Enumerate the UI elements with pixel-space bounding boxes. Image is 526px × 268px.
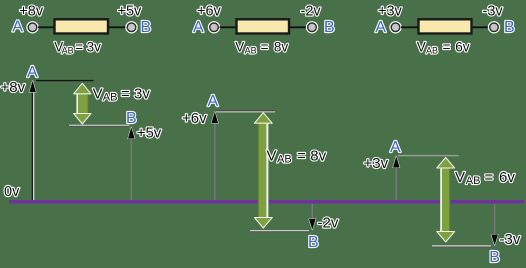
wire resistor R1 to B — [108, 26, 126, 28]
A level line (circuit 2) — [216, 111, 275, 112]
wire resistor R3 to B — [472, 26, 490, 28]
svg-text:AB: AB — [245, 46, 257, 56]
svg-text:=: = — [121, 86, 130, 103]
svg-text:AB: AB — [426, 46, 438, 56]
svg-text:=: = — [297, 148, 306, 165]
svg-text:B: B — [504, 19, 515, 36]
resistor R3 — [419, 19, 472, 33]
svg-text:6v: 6v — [455, 39, 470, 54]
svg-text:+3v: +3v — [364, 155, 389, 172]
value label VAB = 8v (circuit 2) — [235, 39, 288, 55]
vertical 0v axis with +8v arrow — [29, 81, 36, 200]
-2v measure line with down arrow (circuit 2) — [309, 204, 316, 230]
resistor R2 — [237, 19, 290, 33]
svg-text:V: V — [267, 148, 277, 165]
svg-text:+5v: +5v — [118, 4, 143, 20]
value label VAB = 6v (level, circuit 3) — [455, 169, 515, 187]
svg-text:V: V — [93, 86, 103, 103]
svg-text:6v: 6v — [499, 169, 515, 186]
svg-text:+6v: +6v — [197, 4, 222, 20]
svg-text:AB: AB — [103, 92, 118, 104]
svg-text:-3v: -3v — [483, 4, 504, 20]
+6v measure line with up arrow (circuit 2) — [211, 112, 218, 200]
terminal A (circuit 3) — [390, 22, 401, 33]
B level line (circuit 2) — [250, 231, 309, 232]
svg-text:A: A — [12, 19, 23, 36]
svg-text:+8v: +8v — [19, 4, 44, 20]
svg-text:0v: 0v — [4, 184, 20, 200]
value label VAB = 3v (level, circuit 1) — [93, 86, 151, 104]
terminal B (circuit 1) — [126, 22, 137, 33]
svg-text:AB: AB — [62, 46, 74, 56]
svg-text:B: B — [126, 110, 137, 127]
terminal A (circuit 1) — [27, 22, 38, 33]
terminal B (circuit 3) — [489, 22, 500, 33]
B level line (circuit 3) — [432, 246, 491, 247]
green arrow VAB (circuit 3) — [437, 158, 455, 243]
svg-text:A: A — [208, 93, 219, 110]
svg-text:V: V — [455, 169, 465, 186]
svg-text:+8v: +8v — [1, 79, 26, 96]
+5v measure line with up arrow (circuit 1) — [128, 127, 135, 200]
svg-text:3v: 3v — [134, 86, 150, 103]
wire resistor R2 to B — [289, 26, 307, 28]
svg-text:B: B — [324, 19, 335, 36]
svg-text:8v: 8v — [310, 148, 326, 165]
svg-text:3v: 3v — [87, 39, 102, 54]
green arrow VAB (circuit 2) — [254, 113, 272, 228]
svg-text:A: A — [390, 139, 401, 156]
green arrow VAB (circuit 1) — [74, 83, 91, 124]
terminal A (circuit 2) — [209, 22, 220, 33]
svg-text:AB: AB — [466, 175, 481, 187]
svg-text:V: V — [417, 39, 426, 54]
svg-text:A: A — [27, 64, 38, 81]
value label VAB = 3v (circuit 1) — [54, 39, 101, 55]
resistor R1 — [55, 19, 109, 33]
0v baseline (purple) — [9, 200, 525, 203]
svg-text:+5v: +5v — [137, 125, 162, 142]
A level line (circuit 1) — [36, 80, 94, 82]
value label VAB = 8v (level, circuit 2) — [267, 148, 327, 166]
svg-text:A: A — [193, 19, 204, 36]
A level line (circuit 3) — [398, 155, 459, 157]
svg-text:V: V — [235, 39, 244, 54]
+3v measure line with up arrow (circuit 3) — [393, 156, 400, 200]
svg-text:=: = — [485, 169, 494, 186]
svg-text:B: B — [489, 249, 500, 266]
wire A to resistor R3 — [401, 26, 418, 28]
svg-text:=: = — [443, 39, 451, 54]
svg-text:=: = — [261, 39, 269, 54]
svg-text:-2v: -2v — [301, 4, 322, 20]
value label VAB = 6v (circuit 3) — [417, 39, 470, 55]
svg-text:-2v: -2v — [318, 215, 339, 232]
svg-text:+3v: +3v — [378, 4, 403, 20]
svg-text:-3v: -3v — [500, 231, 521, 248]
B level line (circuit 1) — [69, 125, 130, 126]
-3v measure line with down arrow (circuit 3) — [491, 204, 498, 245]
svg-text:A: A — [375, 19, 386, 36]
svg-text:8v: 8v — [274, 39, 289, 54]
terminal B (circuit 2) — [307, 22, 318, 33]
svg-text:B: B — [141, 19, 152, 36]
svg-text:B: B — [308, 234, 319, 251]
wire A to resistor R2 — [220, 26, 237, 28]
svg-text:+6v: +6v — [182, 110, 207, 127]
wire A to resistor R1 — [38, 26, 54, 28]
svg-text:=: = — [75, 39, 83, 54]
svg-text:AB: AB — [277, 153, 292, 165]
